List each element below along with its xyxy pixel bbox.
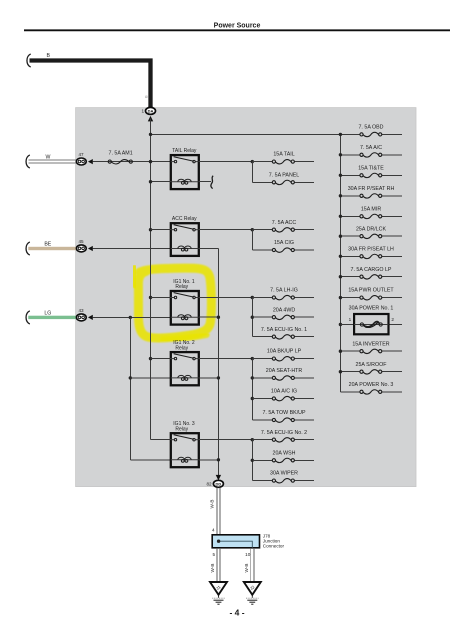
wire: W-B from DD to junction connector (outlined) [216, 487, 218, 535]
fuse 15A MIR row [340, 215, 360, 217]
break symbol on LG wire [26, 311, 30, 324]
svg-text:5: 5 [212, 552, 215, 557]
fuse 10A BK/UP LP row [252, 358, 272, 360]
svg-text:7. 5A LH-IG: 7. 5A LH-IG [270, 288, 298, 294]
wire: TAIL relay output [199, 161, 253, 163]
svg-text:W: W [46, 154, 51, 160]
break symbol after TAIL coil [211, 176, 213, 189]
fuse 7. 5A TOW BK/UP row [252, 419, 272, 421]
fuse 25A S/ROOF row [340, 371, 360, 373]
wire: main bus vertical [150, 119, 152, 440]
svg-text:15A MIR: 15A MIR [361, 206, 381, 212]
svg-text:30A POWER No. 1: 30A POWER No. 1 [349, 305, 394, 311]
wire: W input (white wire, outlined) [28, 159, 76, 161]
wire: LG branch to IG1 No.2 relay coil [130, 377, 171, 379]
svg-text:30A FR P/SEAT RH: 30A FR P/SEAT RH [348, 186, 395, 192]
svg-text:Relay: Relay [175, 345, 188, 351]
node: IG1 No.3 output branch [251, 438, 254, 441]
svg-text:Power Source: Power Source [214, 23, 261, 30]
fuse 7. 5A CARGO LP row [340, 276, 360, 278]
wire: branch down group 5 [251, 440, 253, 481]
fuse 7. 5A PANEL row [252, 181, 272, 183]
node: bus / IG1 No.2 switch [149, 357, 152, 360]
wire: IG1 No.3 output [199, 439, 253, 441]
svg-text:20A SEAT-HTR: 20A SEAT-HTR [266, 368, 303, 374]
node: bus / ACC switch [149, 228, 152, 231]
node: common return / IG1 No.1 coil [217, 316, 220, 319]
fuse 25A DR/LCK row [340, 235, 360, 237]
svg-text:7. 5A ECU-IG No. 1: 7. 5A ECU-IG No. 1 [261, 327, 307, 333]
svg-text:43: 43 [78, 308, 84, 313]
node: common return / IG1 No.3 coil [217, 458, 220, 461]
svg-text:15A TAIL: 15A TAIL [273, 152, 294, 158]
fuse 30A FR P/SEAT RH row [340, 195, 360, 197]
svg-text:B: B [143, 95, 148, 98]
circuit breaker 30A POWER No. 1 [339, 323, 342, 326]
svg-text:82: 82 [206, 482, 212, 487]
svg-text:15A INVERTER: 15A INVERTER [352, 341, 389, 347]
arrow at connector 47 [88, 159, 93, 164]
node: common return / IG1 No.2 coil [217, 376, 220, 379]
wire: W-B to ground J1 (outlined) [216, 548, 218, 581]
svg-text:7. 5A TOW BK/UP: 7. 5A TOW BK/UP [262, 410, 306, 416]
arrow into block (up) [148, 116, 153, 122]
svg-text:25A S/ROOF: 25A S/ROOF [356, 362, 388, 368]
wire: bus to IG1 No.1 switch [151, 297, 171, 299]
break symbol on W wire [26, 155, 30, 168]
arrow out of block (down) [216, 475, 221, 481]
node: LG branch [129, 316, 132, 319]
connector 43 [76, 314, 86, 321]
wire: right bus vertical [339, 134, 341, 391]
connector 1 DA at junction block top [146, 107, 156, 114]
svg-text:Relay: Relay [175, 426, 188, 432]
fuse 20A 4WD row [252, 316, 272, 318]
node: bus / TAIL coil [149, 180, 152, 183]
svg-text:1: 1 [141, 109, 144, 114]
relay ACC [171, 216, 199, 256]
relay IG1 No.2 [171, 340, 199, 385]
fuse 20A SEAT-HTR row [252, 377, 272, 379]
svg-text:15A CIG: 15A CIG [274, 240, 294, 246]
node: TAIL output branch [251, 160, 254, 163]
wire: IG1 No.2 output [199, 358, 253, 360]
svg-text:7. 5A A/C: 7. 5A A/C [360, 145, 382, 151]
svg-text:25A DR/LCK: 25A DR/LCK [356, 226, 386, 232]
wire: ACC relay output [199, 229, 253, 231]
wire: branch down to CIG fuse [251, 230, 253, 250]
svg-text:TAIL Relay: TAIL Relay [172, 148, 197, 154]
connector 45 [76, 245, 86, 252]
header rule [24, 29, 450, 31]
fuse 30A FR P/SEAT LH row [340, 255, 360, 257]
svg-text:20A POWER No. 3: 20A POWER No. 3 [349, 382, 394, 388]
wire: battery B feed (thick black) [30, 61, 151, 108]
svg-text:W-B: W-B [210, 564, 215, 573]
node: branch / SEAT-HTR row [251, 376, 254, 379]
wire: branch down to PANEL fuse [251, 162, 253, 183]
wire: LG branch vertical down [129, 317, 131, 459]
fuse 7. 5A OBD row [340, 133, 360, 135]
svg-text:10A BK/UP LP: 10A BK/UP LP [267, 349, 302, 355]
svg-text:BE: BE [44, 241, 51, 247]
wire: bus to TAIL relay coil [151, 181, 171, 183]
fuse 15A PWR OUTLET row [340, 297, 360, 299]
node: bus / IG1 No.1 switch [149, 296, 152, 299]
wire: branch down group 4 [251, 359, 253, 420]
svg-text:20A 4WD: 20A 4WD [273, 307, 296, 313]
svg-text:47: 47 [78, 152, 84, 157]
fuse 7. 5A ECU-IG No. 2 row [252, 439, 272, 441]
connector 47 [76, 158, 86, 165]
svg-text:10A A/C IG: 10A A/C IG [271, 389, 297, 395]
svg-text:7. 5A OBD: 7. 5A OBD [358, 125, 383, 131]
junction connector J78 (blue box) [212, 535, 259, 548]
svg-text:7. 5A CARGO LP: 7. 5A CARGO LP [351, 267, 392, 273]
wire: ACC coil to common return [199, 248, 219, 250]
wire: IG1 No.3 coil to common return [199, 459, 219, 461]
relay IG1 No.3 [171, 421, 199, 467]
wire: BE input (tan) [28, 247, 76, 250]
svg-text:7. 5A AM1: 7. 5A AM1 [109, 150, 133, 156]
svg-text:LG: LG [44, 310, 51, 316]
node: ACC output branch [251, 228, 254, 231]
node: IG1 No.2 output branch [251, 357, 254, 360]
node: branch / 4WD row [251, 316, 254, 319]
arrow at connector 45 [88, 246, 93, 251]
node: bus / top feed [149, 133, 152, 136]
connector 82 DD at junction block bottom [213, 480, 223, 487]
svg-text:7. 5A ACC: 7. 5A ACC [272, 220, 297, 226]
node: LG branch / IG1 No.2 coil [129, 376, 132, 379]
wire: IG1 No.1 coil to common return [199, 316, 219, 318]
fuse 15A CIG row [252, 249, 272, 251]
fuse 20A WSH row [252, 459, 272, 461]
node: branch / A/C IG row [251, 397, 254, 400]
svg-text:45: 45 [78, 239, 84, 244]
svg-text:ACC Relay: ACC Relay [172, 216, 197, 222]
wire: bus elbow to IG1 No.3 switch [151, 439, 171, 441]
svg-text:Relay: Relay [175, 284, 188, 290]
svg-text:DA: DA [148, 109, 154, 114]
svg-text:- 4 -: - 4 - [229, 608, 244, 618]
svg-text:7. 5A ECU-IG No. 2: 7. 5A ECU-IG No. 2 [261, 430, 307, 436]
node: branch / WSH row [251, 459, 254, 462]
wire: 45 to ACC relay coil [93, 248, 171, 250]
wire: top feed to right fuse bank [151, 133, 341, 135]
svg-text:Connector: Connector [263, 543, 285, 548]
svg-text:W-B: W-B [244, 564, 249, 573]
wire: IG1 No.2 coil to common return [199, 377, 219, 379]
wire: bus to IG1 No.2 switch [151, 358, 171, 360]
wire: W-B to ground J2 (outlined) [250, 548, 252, 581]
node inside junction connector [217, 540, 220, 543]
arrow at connector 43 [88, 315, 93, 320]
wire: TAIL coil return stub [199, 181, 211, 183]
fuse 7. 5A LH-IG row [252, 297, 272, 299]
svg-text:30A WIPER: 30A WIPER [270, 471, 298, 477]
fuse 7. 5A ECU-IG No. 1 row [252, 336, 272, 338]
wire: branch down group 3 [251, 298, 253, 337]
break symbol on BE wire [26, 242, 30, 255]
svg-text:2: 2 [391, 317, 394, 322]
junction block body (grey) [76, 108, 416, 487]
break symbol on B wire [27, 54, 31, 67]
fuse 7.5A AM1 [108, 160, 132, 164]
fuse 15A TAIL row [252, 161, 272, 163]
node: IG1 No.1 output branch [251, 296, 254, 299]
svg-text:DD: DD [216, 481, 222, 486]
wire: 47 to TAIL relay switch [93, 161, 171, 163]
svg-text:10: 10 [245, 552, 251, 557]
svg-text:4: 4 [212, 528, 215, 533]
wire: LG branch to IG1 No.3 relay coil [130, 459, 171, 461]
svg-text:30A FR P/SEAT LH: 30A FR P/SEAT LH [348, 246, 394, 252]
svg-text:7. 5A PANEL: 7. 5A PANEL [269, 172, 300, 178]
svg-text:W-B: W-B [209, 500, 214, 509]
svg-text:20A WSH: 20A WSH [273, 450, 296, 456]
fuse 7. 5A A/C row [340, 154, 360, 156]
svg-text:1: 1 [349, 317, 352, 322]
fuse 20A POWER No. 3 row [340, 391, 360, 393]
relay IG1 No.1 [171, 279, 199, 325]
fuse 10A A/C IG row [252, 398, 272, 400]
fuse 30A WIPER row [252, 480, 272, 482]
ground J2 [244, 582, 261, 604]
svg-text:15A TI&TE: 15A TI&TE [358, 165, 384, 171]
node: bus / AM1 row [149, 160, 152, 163]
wire: 43 to IG1 No.1 relay coil [93, 316, 171, 318]
fuse 15A TI&amp;TE row [340, 174, 360, 176]
ground J1 [210, 582, 227, 604]
wire: IG1 No.1 output [199, 297, 253, 299]
wire: LG input (green) [28, 316, 76, 319]
wire: bus to ACC relay switch [151, 229, 171, 231]
svg-text:B: B [46, 53, 50, 59]
relay TAIL [171, 148, 199, 189]
fuse 15A INVERTER row [340, 350, 360, 352]
fuse 7. 5A ACC row [252, 229, 272, 231]
wire: coil common return vertical [217, 249, 219, 478]
svg-text:15A PWR OUTLET: 15A PWR OUTLET [348, 288, 394, 294]
